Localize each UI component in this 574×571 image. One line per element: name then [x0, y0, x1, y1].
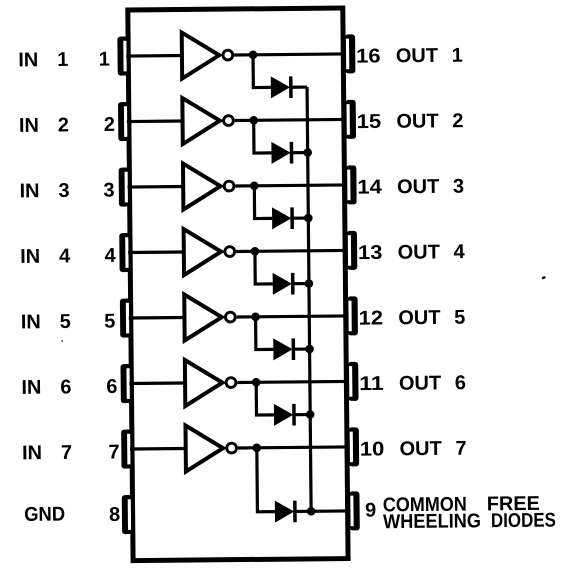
wire diode branch 7: [257, 448, 275, 512]
wire input 7 (pin 7 to inverter): [130, 447, 186, 451]
svg-text:OUT: OUT: [399, 438, 441, 460]
wire diode D6 cathode to rail: [294, 413, 310, 416]
svg-text:2: 2: [452, 110, 463, 132]
diode D5: [273, 338, 293, 360]
svg-text:5: 5: [60, 311, 71, 333]
node rail junction D2: [303, 148, 312, 157]
svg-text:5: 5: [454, 307, 465, 329]
pin 11 pad: [348, 362, 359, 401]
wire diode branch 2: [254, 120, 272, 153]
inverter U2: [182, 98, 233, 144]
IC body outline: [128, 8, 348, 561]
svg-text:8: 8: [109, 504, 120, 526]
svg-text:6: 6: [60, 376, 71, 398]
label IN 5: [21, 311, 71, 333]
diode D6: [274, 404, 294, 426]
label IN 1: [18, 49, 68, 71]
inverter U6: [185, 360, 236, 406]
label IN 2: [19, 114, 69, 136]
svg-text:15: 15: [357, 111, 382, 133]
wire diode branch 3: [254, 186, 272, 219]
svg-text:IN: IN: [21, 311, 41, 333]
diode D2: [271, 142, 291, 164]
pin 9 pad: [349, 491, 360, 530]
wire input 6 (pin 6 to inverter): [129, 381, 185, 385]
svg-text:2: 2: [58, 114, 69, 136]
inverter U1: [182, 32, 233, 78]
label OUT 3: [397, 176, 464, 199]
svg-text:6: 6: [455, 372, 466, 394]
svg-text:IN: IN: [22, 442, 42, 464]
inverter U3: [183, 163, 234, 209]
wire output 2 (inverter to pin 15): [235, 119, 346, 120]
label OUT 2: [396, 110, 463, 133]
pin 12 pad: [347, 296, 358, 335]
label IN 3: [19, 180, 69, 202]
svg-text:OUT: OUT: [396, 110, 438, 132]
wire diode branch 5: [256, 317, 274, 350]
wire diode D2 cathode to rail: [291, 151, 307, 154]
wire diode branch 1: [253, 55, 271, 88]
svg-text:IN: IN: [20, 246, 40, 268]
svg-text:3: 3: [103, 179, 114, 201]
node output 3 junction: [250, 181, 259, 190]
svg-text:13: 13: [358, 242, 383, 264]
wire diode branch 4: [255, 251, 273, 284]
pin 7 pad: [121, 430, 132, 469]
svg-text:OUT: OUT: [396, 45, 438, 67]
svg-text:OUT: OUT: [398, 307, 440, 329]
wire output 3 (inverter to pin 14): [235, 185, 346, 186]
label COMMON FREE WHEELING DIODES: [383, 493, 556, 533]
svg-text:7: 7: [455, 438, 466, 460]
wire pin 9 (rail to pin 9): [311, 509, 349, 513]
wire input 1 (pin 1 to inverter): [126, 54, 182, 58]
svg-text:IN: IN: [18, 49, 38, 71]
svg-text:OUT: OUT: [398, 241, 440, 263]
label OUT 5: [398, 307, 465, 330]
svg-text:1: 1: [57, 49, 68, 71]
wire diode D7 cathode to rail: [295, 510, 311, 513]
wire input 4 (pin 4 to inverter): [128, 250, 184, 254]
svg-text:OUT: OUT: [397, 176, 439, 198]
svg-text:4: 4: [453, 241, 465, 263]
svg-text:2: 2: [104, 114, 115, 136]
label OUT 4: [398, 241, 466, 264]
wire diode D3 cathode to rail: [292, 216, 308, 219]
node output 7 junction: [252, 443, 261, 452]
node output 2 junction: [249, 116, 258, 125]
pin 1 pad: [117, 37, 128, 76]
svg-text:IN: IN: [19, 115, 39, 137]
svg-text:WHEELING: WHEELING: [383, 510, 481, 533]
pin 4 pad: [119, 233, 130, 272]
node rail junction D5: [305, 345, 314, 354]
wire diode D1 cathode to rail: [291, 85, 307, 88]
svg-text:4: 4: [59, 245, 71, 267]
wire input 3 (pin 3 to inverter): [128, 185, 184, 189]
svg-text:7: 7: [108, 441, 119, 463]
svg-text:OUT: OUT: [399, 372, 441, 394]
pin 10 pad: [349, 427, 360, 466]
pin 16 pad: [345, 34, 356, 73]
node output 6 junction: [252, 378, 261, 387]
svg-text:12: 12: [358, 307, 383, 329]
wire output 6 (inverter to pin 11): [237, 381, 348, 382]
pin 13 pad: [347, 231, 358, 270]
svg-text:DIODES: DIODES: [491, 510, 556, 533]
diode D4: [273, 273, 293, 295]
pin 8 pad: [122, 495, 133, 534]
pin 15 pad: [345, 100, 356, 139]
inverter U7: [185, 425, 236, 471]
wire input 5 (pin 5 to inverter): [129, 316, 185, 320]
svg-text:6: 6: [106, 376, 117, 398]
label OUT 7: [399, 438, 466, 461]
svg-text:11: 11: [359, 373, 384, 395]
label OUT 6: [399, 372, 466, 395]
wire output 1 (inverter to pin 16): [234, 54, 345, 55]
node rail junction D4: [305, 279, 314, 288]
common cathode rail (net K): [307, 87, 311, 511]
label IN 4: [20, 245, 71, 267]
diode D7: [275, 500, 295, 522]
diode D3: [272, 207, 292, 229]
label OUT 1: [396, 45, 463, 68]
node rail junction D6: [306, 410, 315, 419]
label IN 7: [22, 442, 72, 464]
node rail junction D7 / pin 9: [307, 507, 316, 516]
svg-text:1: 1: [452, 45, 463, 67]
wire output 5 (inverter to pin 12): [237, 316, 348, 317]
label IN 6: [21, 376, 71, 398]
wire input 2 (pin 2 to inverter): [127, 119, 183, 123]
svg-text:9: 9: [365, 499, 376, 521]
svg-text:14: 14: [357, 176, 383, 198]
node output 4 junction: [251, 247, 260, 256]
node rail junction D3: [304, 214, 313, 223]
pin 14 pad: [346, 165, 357, 204]
diode D1: [271, 76, 291, 98]
inverter U4: [184, 229, 235, 275]
svg-text:7: 7: [61, 442, 72, 464]
svg-text:5: 5: [104, 310, 115, 332]
wire diode branch 6: [256, 382, 274, 415]
wire output 7 (inverter to pin 10): [238, 447, 349, 448]
inverter U5: [184, 294, 235, 340]
wire diode D4 cathode to rail: [293, 282, 309, 285]
svg-text:3: 3: [453, 176, 464, 198]
svg-text:GND: GND: [24, 503, 65, 525]
svg-text:10: 10: [360, 438, 385, 460]
svg-text:IN: IN: [21, 377, 41, 399]
node output 5 junction: [251, 312, 260, 321]
pin 3 pad: [119, 168, 130, 207]
node output 1 junction: [249, 50, 258, 59]
wire diode D5 cathode to rail: [293, 347, 309, 350]
pin 6 pad: [121, 364, 132, 403]
svg-text:16: 16: [356, 45, 381, 67]
pin 5 pad: [120, 299, 131, 338]
svg-text:3: 3: [58, 180, 69, 202]
svg-text:1: 1: [99, 49, 110, 71]
wire output 4 (inverter to pin 13): [236, 250, 347, 251]
pin 2 pad: [118, 102, 129, 141]
svg-text:IN: IN: [19, 180, 39, 202]
svg-text:4: 4: [104, 245, 116, 267]
